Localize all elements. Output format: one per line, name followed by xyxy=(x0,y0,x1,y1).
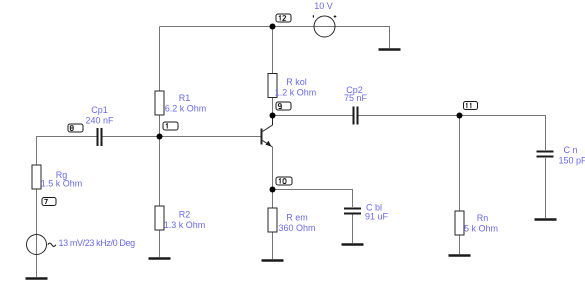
wire node 10 down to R em xyxy=(272,190,274,209)
node 1 tag xyxy=(163,122,178,130)
wire Rkol top lead from top rail xyxy=(272,27,274,74)
svg-text:5 k Ohm: 5 k Ohm xyxy=(464,224,498,234)
svg-text:150 pF: 150 pF xyxy=(559,156,585,166)
svg-text:360 Ohm: 360 Ohm xyxy=(278,223,315,233)
junction node 1 xyxy=(157,134,163,140)
node 9 tag xyxy=(276,102,291,110)
wire C n bottom to ground xyxy=(545,158,547,218)
svg-text:91 uF: 91 uF xyxy=(365,212,389,222)
svg-text:13 mV/23 kHz/0 Deg: 13 mV/23 kHz/0 Deg xyxy=(59,238,136,248)
wire node 10 to C bl top xyxy=(273,190,353,208)
resistor Rkol xyxy=(268,74,316,98)
wire node 9 to Cp2 left plate xyxy=(273,115,353,117)
resistor Rem xyxy=(268,208,316,233)
capacitor Cp1 xyxy=(85,105,114,146)
node 10 tag xyxy=(276,177,292,185)
node 8 tag xyxy=(68,124,83,132)
ground at Cn xyxy=(535,218,557,221)
wire Rn bottom to ground xyxy=(459,235,461,254)
wire Cp1 right plate to node 1 junction to transistor base xyxy=(103,136,262,138)
svg-text:240 nF: 240 nF xyxy=(85,116,114,126)
svg-text:Cp1: Cp1 xyxy=(91,105,108,115)
ground at V2 xyxy=(26,277,48,280)
junction node 11 xyxy=(457,113,463,119)
node 7 tag xyxy=(42,198,56,206)
svg-text:1.2 k Ohm: 1.2 k Ohm xyxy=(275,88,317,98)
wire top rail from R1 to V1 and ground corner xyxy=(160,27,390,49)
resistor R2 xyxy=(155,206,205,230)
sine source V2 13 mV xyxy=(27,235,136,255)
wire node 11 to C n top xyxy=(460,116,546,151)
svg-text:C n: C n xyxy=(564,145,578,155)
svg-text:R1: R1 xyxy=(179,93,191,103)
node 11 tag xyxy=(464,102,478,110)
wire R1 bottom to node 1 junction xyxy=(159,115,161,137)
capacitor Cp2 xyxy=(344,85,368,125)
wire R1 column top lead xyxy=(159,27,161,92)
junction node 10 xyxy=(270,187,276,193)
wire Rg bottom through source V2 to ground xyxy=(36,189,38,277)
resistor Rn xyxy=(455,211,498,235)
node 12 tag xyxy=(276,14,291,22)
wire R em bottom to ground xyxy=(272,232,274,259)
junction node 9 xyxy=(270,113,276,119)
wire Cp2 right plate to node 11 junction xyxy=(359,115,460,117)
ground at Rn xyxy=(449,254,471,257)
svg-text:10 V: 10 V xyxy=(314,1,333,11)
resistor R1 xyxy=(155,91,206,115)
ground at R2 xyxy=(149,257,171,260)
svg-text:1.5 k Ohm: 1.5 k Ohm xyxy=(41,179,83,189)
wire node 11 down to Rn xyxy=(459,116,461,212)
capacitor Cn xyxy=(537,145,585,166)
resistor Rg xyxy=(32,165,82,189)
svg-text:6.2 k Ohm: 6.2 k Ohm xyxy=(165,104,207,114)
ground at Cbl xyxy=(342,243,364,246)
wire input rail: left column top corner to Cp1 left plate xyxy=(37,137,97,166)
wire R2 bottom to ground xyxy=(159,231,161,258)
capacitor Cbl xyxy=(344,203,389,222)
wire node 1 junction down to R2 xyxy=(159,137,161,207)
junction node 12 xyxy=(270,24,276,30)
ground at V1 xyxy=(379,48,401,51)
svg-text:R kol: R kol xyxy=(286,77,307,87)
svg-text:Rn: Rn xyxy=(477,213,489,223)
svg-text:R em: R em xyxy=(286,213,308,223)
wire Rkol bottom to collector node 9 junction xyxy=(272,98,274,116)
wire C bl bottom to ground xyxy=(352,215,354,244)
ground at Rem xyxy=(262,259,284,262)
wire emitter down to node 10 junction xyxy=(272,147,274,189)
voltage source V1 10 V xyxy=(313,1,336,37)
svg-text:R2: R2 xyxy=(179,210,191,220)
svg-text:75 nF: 75 nF xyxy=(344,93,368,103)
transistor Q1 xyxy=(262,116,273,148)
svg-text:1.3 k Ohm: 1.3 k Ohm xyxy=(164,220,206,230)
